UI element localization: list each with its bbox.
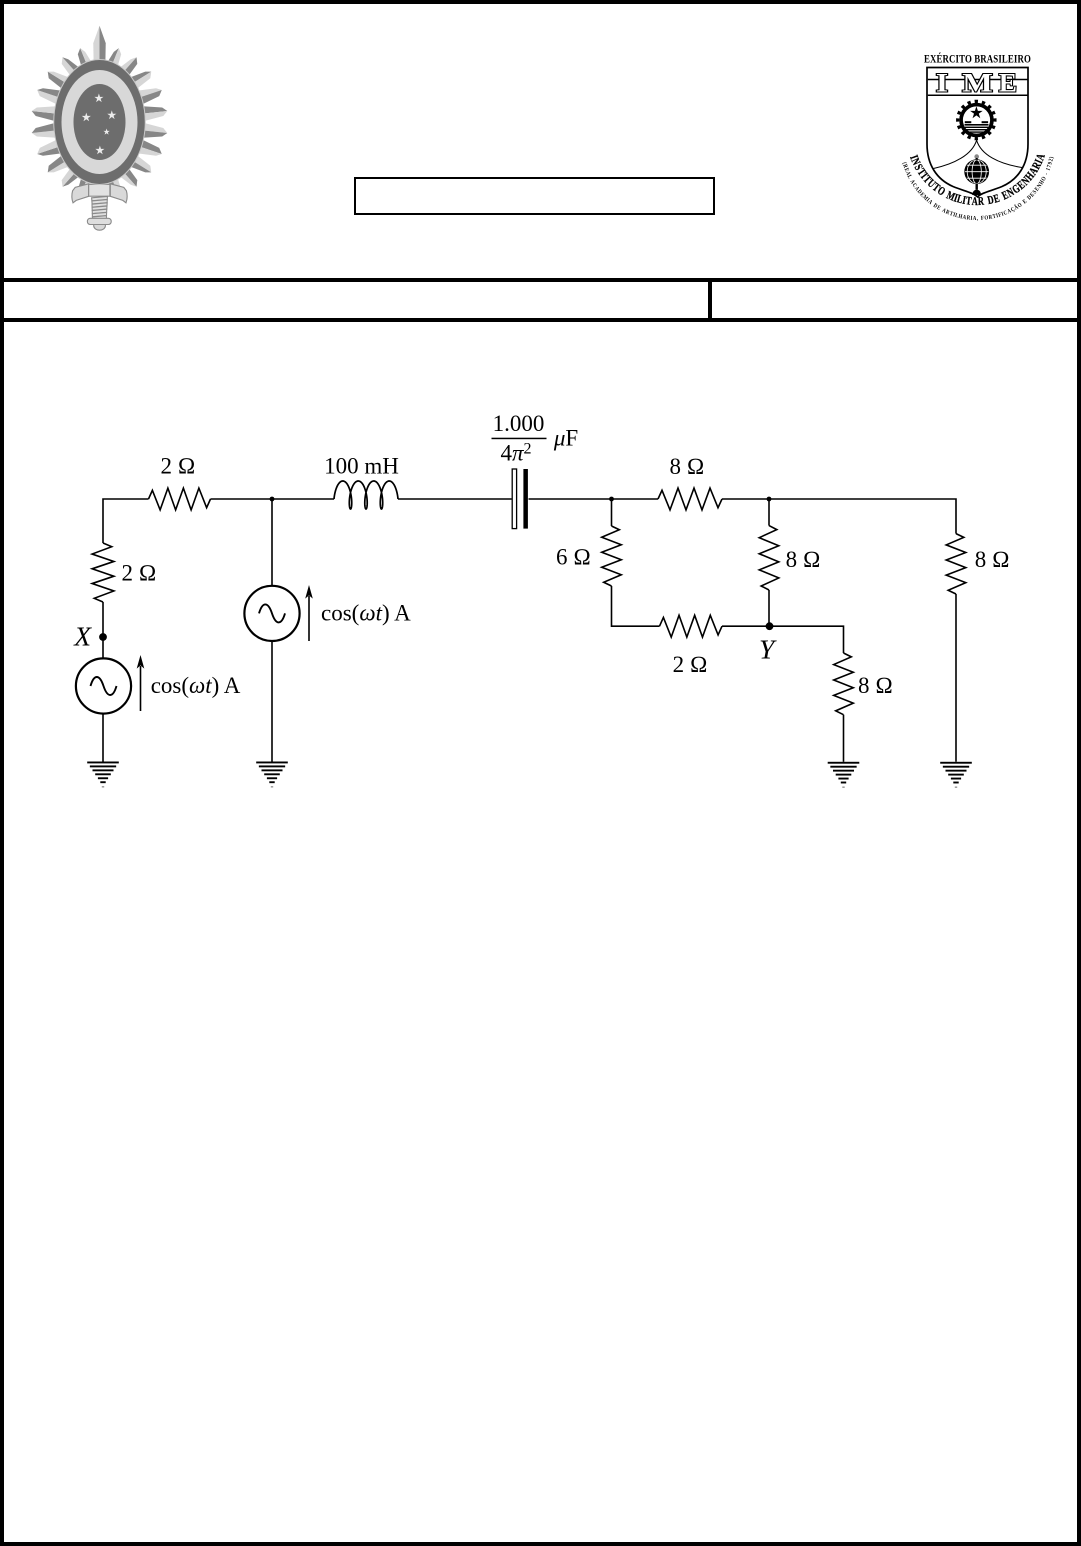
svg-text:8 Ω: 8 Ω (858, 673, 893, 698)
ground 1 (87, 762, 119, 788)
svg-text:8 Ω: 8 Ω (975, 547, 1010, 572)
Brazilian Army emblem (30, 24, 170, 232)
arrowhead source 1 (137, 655, 145, 669)
wire 2ohm to node Y (722, 625, 770, 627)
IME logo: curved title INSTITUTO MILITAR DE ENGENHARIA (907, 152, 1049, 209)
wire capacitor to node B and resistor (529, 498, 659, 500)
IME logo: gear (956, 100, 996, 140)
label capacitor value (492, 411, 579, 466)
band bottom rule (0, 318, 1081, 322)
current source 1 circle (76, 658, 131, 713)
current source 2 sine (259, 604, 285, 622)
resistor 6ohm vertical (602, 526, 622, 586)
wire top rail left corner to resistor (103, 499, 149, 543)
ground 4 (940, 762, 972, 788)
resistor 8ohm top horizontal (658, 488, 722, 510)
ground 3 (828, 762, 860, 788)
IME logo: shield outline (927, 68, 1028, 197)
arrow of source 2 (308, 596, 310, 641)
wire node A down to source 2 (271, 499, 273, 585)
wire resistor to inductor through node A (211, 498, 335, 500)
wire resistor to node X (102, 602, 104, 658)
inductor 100mH (334, 481, 398, 509)
resistor 8ohm below Y (834, 653, 854, 715)
wire node B down to 6ohm (611, 499, 613, 526)
wire 6ohm to bottom corner and 2ohm (612, 586, 660, 626)
arrow of source 1 (140, 666, 142, 711)
wire node C down to 8ohm mid (768, 499, 770, 526)
IME logo (888, 44, 1068, 236)
ground 2 (256, 762, 288, 788)
wire 8ohm mid to node Y (768, 590, 770, 626)
svg-text:2 Ω: 2 Ω (161, 454, 196, 479)
resistor 8ohm mid vertical (759, 526, 779, 590)
svg-text:cos(ωt) A: cos(ωt) A (151, 673, 241, 698)
svg-text:2 Ω: 2 Ω (673, 652, 708, 677)
wire source 2 to ground (271, 641, 273, 762)
svg-text:4π2: 4π2 (500, 441, 531, 466)
emblem sunburst rays (32, 26, 168, 199)
svg-text:6 Ω: 6 Ω (556, 544, 591, 569)
IME logo: drape curves (934, 140, 1023, 168)
node B junction dot (609, 497, 614, 502)
emblem southern-cross stars (82, 94, 117, 155)
current source 2 circle (244, 586, 299, 641)
svg-text:cos(ωt) A: cos(ωt) A (321, 600, 411, 625)
svg-text:μF: μF (553, 426, 578, 451)
band vertical divider (708, 282, 713, 318)
capacitor right plate (solid) (523, 469, 528, 529)
capacitor left plate (hollow) (512, 469, 516, 529)
node X junction dot (99, 633, 107, 641)
node A junction dot (270, 497, 275, 502)
svg-text:Y: Y (759, 634, 777, 665)
resistor 8ohm right vertical (946, 534, 966, 594)
wire source 1 to ground (102, 714, 104, 762)
svg-text:100 mH: 100 mH (324, 453, 399, 478)
IME logo: band lines (928, 79, 1028, 81)
resistor 2ohm bottom horizontal (660, 615, 723, 637)
resistor 2ohm top horizontal (149, 488, 211, 510)
arrowhead source 2 (305, 585, 313, 599)
node C junction dot (767, 497, 772, 502)
svg-text:1.000: 1.000 (493, 411, 545, 436)
current source 1 sine (91, 677, 117, 695)
IME logo: I M E letters (936, 68, 1017, 98)
resistor 2ohm vertical left (92, 543, 114, 602)
title box (354, 177, 715, 215)
wire 8ohm to ground 3 (843, 715, 845, 762)
svg-text:X: X (73, 620, 92, 651)
node Y junction dot (766, 622, 774, 630)
IME logo: armillary sphere (964, 154, 989, 195)
svg-text:2 Ω: 2 Ω (122, 561, 157, 586)
emblem sword hilt (72, 184, 127, 230)
header separator rule (0, 278, 1081, 282)
wire node C to right corner (722, 499, 956, 534)
emblem oval rings (54, 60, 146, 185)
svg-text:8 Ω: 8 Ω (670, 454, 705, 479)
wire node Y right and down (770, 626, 844, 653)
svg-text:8 Ω: 8 Ω (786, 547, 821, 572)
IME logo: curved subtitle (900, 156, 1055, 222)
wire inductor to capacitor (398, 498, 512, 500)
wire 8ohm right to ground 4 (955, 594, 957, 762)
